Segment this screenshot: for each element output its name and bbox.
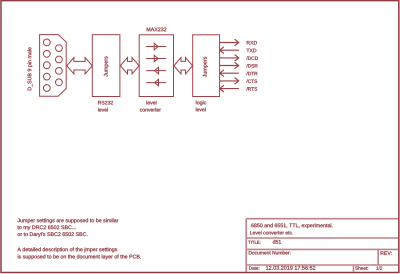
title block outline top edge (246, 218, 398, 220)
U1 receiver buffer 3 (points left) (155, 67, 159, 74)
jumper block JP2 caption logic (196, 100, 206, 105)
net label /DCD (246, 56, 258, 60)
IC U1 MAX232 box (139, 35, 173, 97)
U1 caption level (147, 101, 157, 105)
title block title value d51 (273, 240, 281, 244)
connector J1 pin 3 (43, 62, 50, 69)
wire RXD (output arrow) (220, 39, 239, 46)
title block outline left edge (245, 219, 247, 272)
connector J1 pin 9 (56, 79, 63, 86)
connector J1 pin 2 (43, 50, 50, 57)
title block Sheet label (355, 266, 368, 269)
wire /DCD (output arrow) (220, 55, 239, 62)
jumper block JP2 vertical label Jumpers (203, 57, 208, 77)
jumper block JP1 RS232 level box (92, 35, 120, 97)
bus arrow W2 RS232 jumpers to MAX232 (120, 58, 139, 74)
note text line 5 (18, 255, 141, 260)
title block divider below title (246, 248, 398, 250)
jumper block JP2 caption level (196, 108, 206, 112)
connector J1 label D_SUB 9 pin male (27, 47, 32, 90)
U1 receiver buffer 4 (points left) (155, 79, 159, 86)
note text line 1 (17, 218, 118, 223)
U1 caption converter (140, 108, 161, 111)
net label RXD (247, 41, 257, 45)
note text line 4 (17, 247, 117, 252)
title block comment line 1 (251, 223, 332, 228)
title block divider Sheet column (353, 265, 355, 272)
IC U1 label MAX232 (147, 28, 167, 32)
net label /RTS (246, 87, 257, 91)
wire /CTS (output arrow) (220, 78, 239, 85)
connector J1 pin 8 (56, 68, 63, 75)
jumper block JP1 caption RS232 (98, 101, 113, 105)
title block REV label (381, 251, 392, 255)
net label /DTR (246, 72, 257, 76)
net label /CTS (246, 79, 257, 83)
connector J1 D_SUB 9 pin male outline (40, 35, 67, 97)
title block TITLE label (248, 241, 260, 244)
wire /RTS (input arrow) (220, 85, 239, 92)
title block divider below document number (246, 264, 398, 266)
bus arrow W1 connector to RS232 jumpers (67, 58, 92, 74)
jumper block JP2 logic level box (193, 35, 220, 97)
U1 channel line 4 (146, 82, 166, 84)
connector J1 pin 1 (43, 39, 50, 46)
note text line 2 (17, 225, 75, 230)
note text line 3 (18, 232, 88, 237)
jumper block JP1 caption level (98, 108, 108, 112)
wire TXD (input arrow) (220, 47, 239, 54)
U1 channel line 2 (146, 58, 166, 60)
title block comment line 2 (250, 231, 293, 235)
title block divider below comment (246, 237, 398, 239)
wire /DTR (input arrow) (220, 70, 239, 77)
U1 channel line 3 (146, 70, 166, 72)
wire /DSR (output arrow) (220, 62, 239, 69)
net label TXD (247, 49, 257, 53)
connector J1 pin 6 (56, 45, 63, 52)
U1 driver buffer 1 (points right) (154, 43, 158, 50)
title block sheet value (376, 266, 382, 269)
U1 channel line 1 (146, 46, 166, 48)
bus arrow W3 MAX232 to logic jumpers (174, 58, 193, 74)
title block date value (266, 266, 315, 270)
U1 driver buffer 2 (points right) (154, 55, 158, 62)
connector J1 pin 7 (56, 56, 63, 63)
jumper block JP1 vertical label Jumpers (104, 56, 109, 76)
connector J1 pin 5 (43, 85, 50, 92)
title block divider REV column (377, 249, 379, 265)
title block Document Number label (249, 251, 291, 255)
net label /DSR (246, 64, 257, 68)
title block Date label (249, 267, 259, 270)
connector J1 pin 4 (43, 73, 50, 80)
